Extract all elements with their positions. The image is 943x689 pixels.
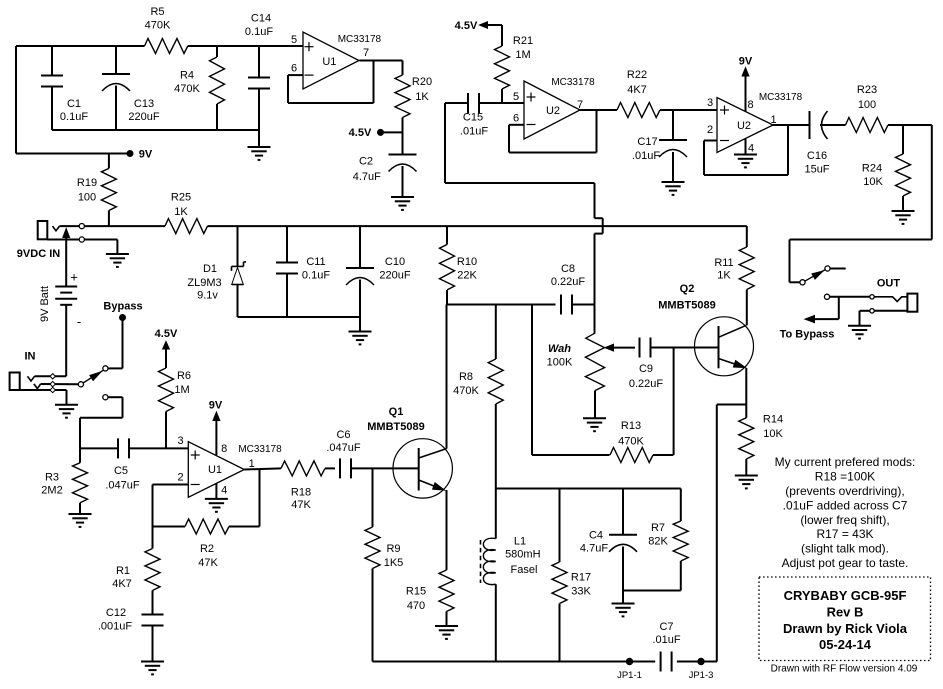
svg-text:220uF: 220uF [128, 111, 159, 123]
ground under U2 pin4 [734, 154, 757, 156]
resistor R1 [112, 549, 160, 591]
svg-text:Drawn with RF Flow version 4.0: Drawn with RF Flow version 4.09 [771, 664, 918, 675]
svg-text:4.7uF: 4.7uF [353, 171, 381, 183]
bypass switch arm [83, 370, 103, 383]
svg-text:C11: C11 [306, 256, 325, 268]
svg-text:C8: C8 [561, 263, 575, 275]
svg-text:9VDC IN: 9VDC IN [17, 248, 60, 260]
pin marker sleeve [50, 387, 55, 392]
svg-text:47K: 47K [198, 557, 218, 569]
ground under R14 [735, 475, 758, 477]
note mods text [775, 455, 916, 570]
svg-text:CRYBABY GCB-95F: CRYBABY GCB-95F [784, 588, 907, 603]
jack OUT [874, 294, 917, 312]
svg-text:U1: U1 [208, 464, 222, 476]
svg-text:0.1uF: 0.1uF [245, 26, 273, 38]
svg-text:R3: R3 [45, 472, 59, 484]
resistor R14 [739, 414, 784, 476]
wire U1 pin6 feedback [288, 61, 374, 104]
svg-text:C7: C7 [659, 621, 673, 633]
capacitor C5 [80, 438, 188, 491]
jack OUT sleeve contact [870, 309, 874, 313]
svg-text:.01uF: .01uF [652, 634, 680, 646]
wire R20 to C2 [402, 118, 404, 155]
svg-text:R17: R17 [571, 572, 591, 584]
svg-text:4.5V: 4.5V [455, 20, 478, 32]
wire C9 node down to R13 [673, 348, 675, 456]
svg-text:R13: R13 [621, 420, 641, 432]
svg-text:R15: R15 [406, 586, 426, 598]
svg-text:R24: R24 [862, 163, 882, 175]
svg-text:To Bypass: To Bypass [780, 329, 835, 341]
wire U2 output to C16 [773, 124, 810, 126]
svg-text:100: 100 [78, 192, 96, 204]
resistor R17 [552, 489, 591, 662]
diode D1 zener [187, 226, 246, 317]
svg-text:05-24-14: 05-24-14 [819, 637, 872, 652]
resistor R9 [365, 468, 403, 661]
wire Q1 collector [446, 305, 448, 449]
svg-text:5: 5 [513, 91, 519, 103]
capacitor C4 [580, 489, 637, 604]
ground under Wah pot [583, 417, 606, 419]
svg-text:R25: R25 [171, 192, 191, 204]
battery 9V Batt [39, 229, 81, 330]
svg-text:R23: R23 [857, 84, 877, 96]
svg-text:C5: C5 [114, 465, 128, 477]
svg-text:470K: 470K [145, 20, 171, 32]
node 4.5V at R20/C2 [349, 127, 403, 139]
svg-text:5: 5 [291, 34, 297, 46]
wire U2 pin6 feedback [509, 110, 597, 153]
ground under C10 [349, 331, 372, 333]
resistor R15 [406, 570, 454, 626]
svg-text:R18: R18 [291, 487, 311, 499]
svg-text:9.1v: 9.1v [197, 290, 218, 302]
svg-text:.01uF added across C7: .01uF added across C7 [783, 498, 908, 512]
capacitor C14 [245, 13, 273, 131]
svg-text:4K7: 4K7 [112, 578, 132, 590]
ground under R15 [435, 625, 458, 627]
resistor R2 [153, 468, 260, 569]
wire battery negative to IN jack [65, 305, 67, 377]
svg-text:R20: R20 [412, 76, 432, 88]
svg-text:4: 4 [221, 484, 227, 496]
capacitor C11 [276, 226, 330, 317]
svg-text:10K: 10K [763, 428, 783, 440]
svg-text:R17 = 43K: R17 = 43K [816, 527, 873, 541]
resistor R22 [617, 69, 660, 118]
ground under U1 pin4 [205, 498, 228, 500]
svg-text:(prevents overdriving),: (prevents overdriving), [785, 484, 904, 498]
capacitor C7 [652, 621, 680, 672]
resistor R25 [165, 192, 208, 234]
label 4.5V supply top [455, 20, 502, 32]
svg-text:580mH: 580mH [505, 549, 541, 561]
svg-text:C1: C1 [67, 98, 81, 110]
svg-text:-: - [77, 314, 81, 329]
pin marker ring [50, 381, 55, 386]
svg-text:R9: R9 [386, 543, 400, 555]
switch contact A [800, 280, 805, 285]
transistor Q1 [367, 406, 452, 498]
label 4.5V at R6 [155, 328, 178, 368]
svg-text:6: 6 [291, 63, 297, 75]
node JP1-1 [617, 658, 642, 681]
svg-text:1K: 1K [717, 270, 731, 282]
svg-text:U1: U1 [322, 56, 336, 68]
svg-text:R18 =100K: R18 =100K [815, 469, 875, 483]
capacitor C1 [41, 46, 88, 130]
wire wah left rail [532, 305, 610, 456]
op-amp U2 (second) [707, 92, 803, 155]
ground under 9VDC jack [106, 253, 129, 255]
svg-text:R7: R7 [651, 522, 665, 534]
capacitor C12 [98, 591, 164, 662]
bypass switch common [78, 382, 83, 387]
svg-text:2: 2 [707, 124, 713, 136]
svg-text:D1: D1 [203, 263, 217, 275]
svg-text:9V: 9V [139, 149, 153, 161]
svg-text:R21: R21 [513, 35, 533, 47]
svg-text:R2: R2 [200, 543, 214, 555]
switch contact B [825, 266, 846, 271]
svg-text:.047uF: .047uF [105, 480, 140, 492]
title box [759, 577, 931, 661]
wire C15 left to wah node [445, 103, 595, 183]
svg-text:R22: R22 [627, 69, 647, 81]
svg-text:470K: 470K [618, 436, 644, 448]
resistor R6 [159, 368, 192, 448]
svg-text:Drawn by Rick Viola: Drawn by Rick Viola [783, 621, 908, 636]
wire U2 pin4 [745, 139, 747, 155]
capacitor C16 [804, 111, 845, 176]
op-amp U1 (bottom) [177, 435, 282, 497]
svg-text:U2: U2 [546, 105, 560, 117]
svg-text:220uF: 220uF [379, 270, 410, 282]
capacitor C8 [551, 263, 595, 315]
wire jog over bus [595, 183, 603, 333]
resistor R5 [145, 6, 188, 54]
label 9V at U1 pin8 [209, 400, 223, 456]
svg-text:OUT: OUT [877, 278, 901, 290]
svg-text:470: 470 [407, 600, 425, 612]
svg-text:.001uF: .001uF [98, 621, 133, 633]
svg-text:JP1-3: JP1-3 [689, 670, 714, 681]
resistor R3 [41, 448, 87, 514]
svg-text:470K: 470K [453, 385, 479, 397]
svg-text:R1: R1 [116, 565, 130, 577]
ground under C17 [662, 181, 685, 183]
svg-text:U2: U2 [737, 120, 751, 132]
svg-text:R10: R10 [457, 256, 477, 268]
ground under C4 [612, 603, 635, 605]
switch contact C [824, 294, 829, 299]
wire C4/R7 bottom [623, 590, 681, 592]
op-amp U1 (top) [291, 32, 382, 89]
resistor R11 [714, 226, 754, 325]
wire pot to ground [594, 391, 596, 419]
wire to bypass arrow [805, 297, 839, 323]
svg-text:MC33178: MC33178 [759, 92, 803, 103]
svg-text:3: 3 [707, 97, 713, 109]
capacitor C15 [445, 93, 502, 138]
resistor R19 [77, 154, 116, 227]
wire top-left rail [16, 46, 303, 154]
ground under C2 [391, 196, 414, 198]
wire bottom rail of filter [52, 129, 259, 131]
wire IN sleeve to ground [66, 390, 68, 405]
transistor Q2 [658, 283, 753, 376]
svg-text:IN: IN [25, 351, 36, 363]
svg-text:C6: C6 [336, 429, 350, 441]
svg-text:.01uF: .01uF [460, 126, 488, 138]
resistor R8 [453, 305, 503, 489]
ground under C14 [248, 130, 271, 160]
svg-text:8: 8 [221, 443, 227, 455]
svg-text:C4: C4 [589, 530, 603, 542]
potentiometer Wah 100K [547, 333, 605, 391]
jack OUT tip contact [870, 295, 874, 299]
svg-text:ZL9M3: ZL9M3 [187, 277, 221, 289]
svg-text:1K5: 1K5 [384, 557, 404, 569]
svg-text:C16: C16 [807, 150, 827, 162]
svg-text:Q2: Q2 [680, 283, 695, 295]
bypass switch contact up [103, 366, 108, 371]
capacitor C2 [353, 155, 417, 198]
svg-text:Q1: Q1 [389, 406, 404, 418]
resistor R18 [281, 461, 335, 511]
ground under R3 [69, 513, 92, 515]
wire U2 pin2 feedback [704, 125, 788, 175]
wire switch to OUT jack [830, 296, 870, 298]
node Bypass [103, 301, 142, 321]
svg-text:2M2: 2M2 [41, 485, 62, 497]
svg-text:0.22uF: 0.22uF [629, 378, 664, 390]
ground under C12 [141, 661, 164, 663]
wire 9VDC sleeve to ground [84, 240, 117, 255]
svg-text:.047uF: .047uF [326, 442, 361, 454]
svg-text:MC33178: MC33178 [551, 77, 595, 88]
svg-text:R19: R19 [77, 177, 97, 189]
svg-text:1M: 1M [515, 49, 530, 61]
wiper arrow of Wah pot [605, 344, 635, 351]
svg-text:Fasel: Fasel [511, 564, 538, 576]
node 9V [16, 149, 153, 161]
wire Q2 emitter to bottom rail [704, 405, 746, 662]
resistor R23 [846, 84, 889, 133]
svg-text:C2: C2 [359, 156, 373, 168]
svg-text:R11: R11 [714, 257, 733, 269]
svg-text:MC33178: MC33178 [238, 444, 282, 455]
svg-text:Adjust pot gear to taste.: Adjust pot gear to taste. [782, 556, 909, 570]
svg-text:9V: 9V [739, 56, 753, 68]
capacitor C9 [629, 338, 719, 391]
svg-text:+: + [70, 270, 78, 285]
svg-text:0.22uF: 0.22uF [551, 276, 586, 288]
wire D1/C11/C10 bottom [238, 317, 361, 332]
svg-text:MC33178: MC33178 [338, 34, 382, 45]
capacitor C17 [632, 110, 687, 182]
wire main bus [84, 225, 746, 227]
svg-text:C13: C13 [134, 98, 154, 110]
svg-text:(slight talk mod).: (slight talk mod). [801, 542, 889, 556]
svg-text:1K: 1K [174, 206, 188, 218]
jack 9VDC IN [17, 221, 79, 260]
svg-text:Wah: Wah [548, 343, 571, 355]
svg-text:4: 4 [748, 143, 754, 155]
resistor R21 [495, 25, 534, 103]
wire Q2 emitter [745, 368, 747, 418]
svg-text:C14: C14 [251, 13, 271, 25]
svg-text:4.5V: 4.5V [349, 127, 372, 139]
label 9V at U2 pin8 [739, 56, 753, 112]
wire bypass node to switch [108, 318, 123, 369]
svg-text:C12: C12 [106, 607, 126, 619]
svg-text:33K: 33K [571, 586, 591, 598]
svg-text:9V Batt: 9V Batt [39, 286, 51, 322]
jack 9VDC IN sleeve contact [79, 237, 84, 242]
svg-text:R5: R5 [150, 6, 164, 18]
wire U1 output [244, 468, 281, 469]
resistor R13 [610, 420, 673, 463]
switch arm with arrow [805, 270, 826, 282]
wire bottom rail [373, 661, 717, 663]
svg-text:JP1-1: JP1-1 [617, 670, 642, 681]
svg-text:R6: R6 [177, 370, 191, 382]
resistor R7 [648, 489, 688, 591]
ground under OUT jack [848, 325, 871, 327]
wire U1 pin2 [153, 485, 189, 549]
wire OUT sleeve to ground [860, 311, 870, 326]
pin marker tip [50, 374, 55, 379]
svg-text:82K: 82K [648, 536, 668, 548]
svg-text:3: 3 [177, 435, 183, 447]
svg-text:100K: 100K [547, 357, 573, 369]
svg-text:2: 2 [177, 472, 183, 484]
svg-text:C10: C10 [385, 256, 405, 268]
wire U1 pin4 [215, 483, 217, 499]
capacitor C13 [102, 46, 160, 130]
svg-text:4K7: 4K7 [627, 84, 647, 96]
svg-text:7: 7 [363, 47, 369, 59]
wire R22 to U2 pin3 [660, 109, 717, 111]
node JP1-3 [689, 658, 714, 681]
svg-text:1: 1 [249, 458, 255, 470]
svg-text:Bypass: Bypass [103, 301, 142, 313]
svg-text:6: 6 [513, 113, 519, 125]
jack IN [10, 373, 79, 391]
resistor R4 [174, 46, 224, 130]
svg-text:4.7uF: 4.7uF [580, 543, 608, 555]
op-amp U2 (first) [513, 77, 595, 139]
wire filter top rail [496, 488, 681, 490]
svg-text:22K: 22K [457, 270, 477, 282]
ground under IN jack [55, 404, 78, 406]
wire U2 pin5 [502, 102, 524, 104]
svg-text:47K: 47K [291, 499, 311, 511]
resistor R20 [395, 75, 432, 118]
svg-text:R14: R14 [763, 414, 783, 426]
svg-text:0.1uF: 0.1uF [60, 111, 88, 123]
wire Q1 emitter [446, 490, 448, 570]
svg-text:9V: 9V [209, 400, 223, 412]
bypass switch contact down [103, 395, 108, 400]
wire R23 to switch [790, 125, 932, 282]
capacitor C6 [326, 429, 418, 478]
jack 9VDC IN tip contact [79, 224, 84, 229]
svg-text:(lower freq shift),: (lower freq shift), [800, 513, 889, 527]
svg-text:My current prefered mods:: My current prefered mods: [775, 455, 916, 469]
svg-text:10K: 10K [863, 176, 883, 188]
svg-text:0.1uF: 0.1uF [302, 270, 330, 282]
svg-text:4.5V: 4.5V [155, 328, 178, 340]
resistor R24 [862, 125, 911, 211]
wire U2 output [580, 109, 617, 111]
wire U1 output [360, 61, 403, 76]
capacitor C10 [346, 226, 411, 317]
svg-text:C9: C9 [639, 363, 653, 375]
svg-text:1K: 1K [415, 91, 429, 103]
resistor R10 [440, 226, 478, 304]
inductor L1 580mH Fasel [481, 489, 541, 662]
svg-text:15uF: 15uF [804, 164, 829, 176]
svg-text:MMBT5089: MMBT5089 [367, 421, 424, 433]
wire R10 to C8 [447, 304, 556, 306]
svg-text:R8: R8 [459, 371, 473, 383]
svg-text:MMBT5089: MMBT5089 [658, 300, 715, 312]
svg-text:L1: L1 [514, 536, 526, 548]
svg-text:8: 8 [747, 99, 753, 111]
wire switch to C5 node [80, 397, 123, 448]
ground under R24 [892, 210, 915, 212]
svg-text:Rev B: Rev B [827, 605, 864, 620]
svg-text:R4: R4 [180, 70, 194, 82]
svg-text:.01uF: .01uF [632, 150, 660, 162]
svg-text:100: 100 [858, 99, 876, 111]
svg-text:C17: C17 [637, 136, 657, 148]
svg-text:470K: 470K [174, 83, 200, 95]
svg-text:1M: 1M [174, 384, 189, 396]
svg-text:C15: C15 [463, 112, 483, 124]
